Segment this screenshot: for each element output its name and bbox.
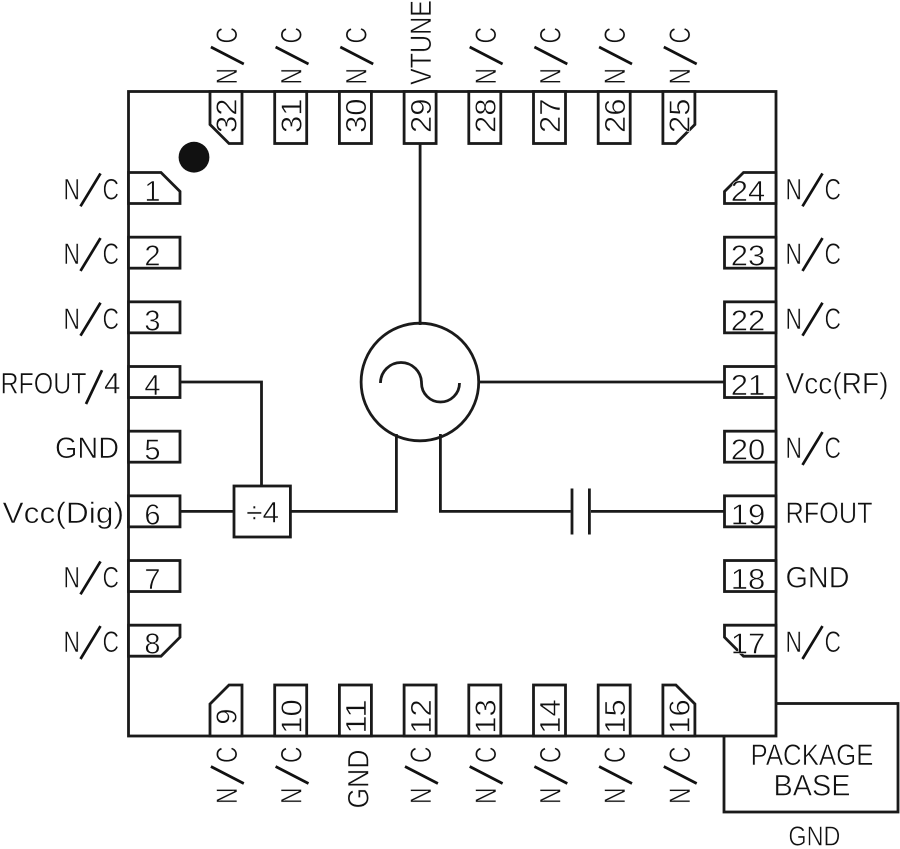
svg-text:3: 3 [144,305,160,337]
svg-text:12: 12 [406,699,438,734]
svg-text:N: N [786,174,803,207]
svg-text:8: 8 [144,629,160,661]
svg-text:13: 13 [471,699,503,734]
svg-text:N: N [786,303,803,336]
svg-text:N: N [276,788,309,805]
svg-text:C: C [211,747,244,764]
svg-text:C: C [103,303,120,336]
svg-text:18: 18 [731,564,766,596]
svg-text:C: C [599,747,632,764]
svg-text:N: N [786,432,803,465]
svg-text:6: 6 [144,499,160,531]
svg-text:C: C [664,27,697,44]
svg-text:N: N [664,68,697,85]
svg-text:N: N [405,788,438,805]
svg-text:N: N [211,68,244,85]
svg-text:÷4: ÷4 [246,497,279,530]
svg-text:GND: GND [55,432,119,465]
svg-text:C: C [470,747,503,764]
svg-text:N: N [664,788,697,805]
svg-text:15: 15 [600,699,632,734]
svg-text:C: C [825,303,842,336]
svg-text:23: 23 [731,241,766,273]
svg-text:C: C [664,747,697,764]
svg-text:21: 21 [731,370,766,402]
svg-text:GND: GND [342,750,375,809]
svg-text:VTUNE: VTUNE [405,0,438,85]
svg-text:Vcc(Dig): Vcc(Dig) [3,497,125,530]
svg-text:N: N [535,788,568,805]
svg-text:C: C [276,747,309,764]
svg-text:17: 17 [731,629,766,661]
svg-text:1: 1 [144,176,160,208]
svg-text:26: 26 [600,98,632,133]
svg-text:N: N [64,562,81,595]
svg-text:C: C [470,27,503,44]
svg-text:16: 16 [665,699,697,734]
svg-text:22: 22 [731,305,766,337]
svg-text:4: 4 [104,368,120,401]
svg-text:GND: GND [788,821,840,849]
svg-text:C: C [103,562,120,595]
svg-text:N: N [470,68,503,85]
svg-text:32: 32 [212,98,244,133]
svg-text:11: 11 [341,699,373,734]
svg-text:RFOUT: RFOUT [1,368,87,401]
svg-text:N: N [276,68,309,85]
svg-text:N: N [64,238,81,271]
svg-text:C: C [535,747,568,764]
svg-text:7: 7 [144,564,160,596]
svg-text:24: 24 [731,176,766,208]
svg-text:N: N [470,788,503,805]
svg-text:N: N [211,788,244,805]
svg-text:C: C [211,27,244,44]
svg-text:N: N [64,303,81,336]
svg-text:30: 30 [341,98,373,133]
svg-text:C: C [103,174,120,207]
svg-text:C: C [103,238,120,271]
svg-text:C: C [825,174,842,207]
svg-text:2: 2 [144,241,160,273]
svg-text:4: 4 [144,370,160,402]
svg-text:C: C [825,238,842,271]
svg-text:19: 19 [731,499,766,531]
svg-text:N: N [535,68,568,85]
svg-text:N: N [64,174,81,207]
svg-text:9: 9 [212,708,244,724]
svg-text:C: C [340,27,373,44]
svg-text:C: C [405,747,438,764]
svg-text:N: N [786,626,803,659]
svg-text:25: 25 [665,98,697,133]
svg-text:N: N [786,238,803,271]
svg-text:Vcc(RF): Vcc(RF) [786,368,889,401]
svg-text:28: 28 [471,98,503,133]
svg-text:5: 5 [144,435,160,467]
svg-text:C: C [535,27,568,44]
svg-text:PACKAGE: PACKAGE [751,739,874,772]
svg-text:C: C [276,27,309,44]
svg-text:27: 27 [535,98,567,133]
svg-text:N: N [599,788,632,805]
svg-text:RFOUT: RFOUT [786,497,873,530]
svg-text:C: C [825,432,842,465]
svg-text:BASE: BASE [774,770,851,803]
svg-text:N: N [64,626,81,659]
svg-text:N: N [340,68,373,85]
svg-text:29: 29 [406,98,438,133]
svg-text:N: N [599,68,632,85]
svg-text:31: 31 [276,98,308,133]
svg-text:GND: GND [786,562,850,595]
svg-text:10: 10 [276,699,308,734]
svg-text:20: 20 [731,435,766,467]
svg-text:C: C [825,626,842,659]
svg-text:14: 14 [535,699,567,734]
svg-text:C: C [599,27,632,44]
svg-text:C: C [103,626,120,659]
